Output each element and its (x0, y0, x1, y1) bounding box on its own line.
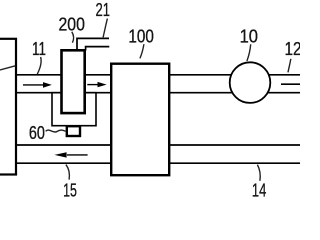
svg-text:60: 60 (29, 123, 45, 143)
leader of label 15 (66, 165, 70, 180)
wire: lower pipe 15/14 bottom line (16, 162, 300, 164)
vent duct 21 outer line (86, 47, 110, 51)
svg-text:15: 15 (63, 180, 77, 200)
squiggle leader of label 60 (46, 130, 66, 132)
svg-text:10: 10 (240, 27, 258, 47)
svg-text:100: 100 (128, 26, 154, 46)
leader of label 200 (72, 32, 74, 43)
vent duct 21 inner line (77, 38, 109, 50)
component box 100 (111, 64, 169, 176)
flow arrow left (lower pipe 15) (54, 152, 87, 157)
svg-text:11: 11 (32, 39, 46, 59)
svg-text:14: 14 (252, 180, 266, 200)
svg-text:21: 21 (96, 0, 111, 20)
pipe 12 stub line (281, 83, 300, 85)
leader of label 10 (247, 44, 251, 61)
leader of label 100 (140, 44, 144, 58)
leader of label 12 (288, 59, 291, 73)
leader of label 11 (37, 57, 41, 74)
valve pocket housing below pipe (52, 93, 96, 126)
wire: lower pipe 15/14 top line (16, 144, 300, 146)
leader into left tank wall (0, 66, 15, 70)
flow arrow right (left pipe segment) (23, 82, 52, 88)
wire: upper pipe 11 bottom line (16, 92, 300, 94)
wire: upper pipe 11 top line (16, 74, 300, 76)
flow arrow right (valve to box) (87, 82, 106, 87)
valve body 200 (62, 50, 85, 113)
leader of label 14 (257, 165, 260, 181)
valve stem box 60 (67, 126, 80, 136)
svg-text:200: 200 (59, 15, 85, 35)
left tank (partially cropped) (0, 39, 16, 175)
leader of label 21 (103, 19, 107, 38)
svg-text:12: 12 (285, 39, 301, 59)
pump circle 10 (230, 62, 271, 103)
